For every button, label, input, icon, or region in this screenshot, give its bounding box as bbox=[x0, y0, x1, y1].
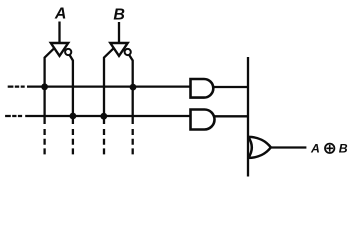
OR input line bbox=[247, 57, 249, 177]
junction dot A on term 1 bbox=[41, 83, 48, 90]
junction dot NOT-A on term 2 bbox=[70, 113, 77, 120]
dashed continuation wire B true bbox=[103, 129, 105, 156]
xor symbol circle bbox=[325, 144, 334, 153]
OR gate U3 bbox=[248, 137, 270, 158]
dashed continuation wire A complement bbox=[72, 129, 74, 155]
bus product term 2 bbox=[25, 115, 190, 117]
svg-text:B: B bbox=[113, 6, 125, 23]
AND gate 1 bbox=[191, 79, 214, 98]
bus product term 1 bbox=[27, 85, 191, 87]
wire output bbox=[271, 146, 307, 148]
dashed continuation wire A true bbox=[43, 129, 45, 156]
wire B complement bbox=[129, 55, 133, 124]
wire B true tap bbox=[104, 44, 119, 124]
bus product term 1 dashed lead bbox=[8, 85, 25, 87]
dashed continuation wire B complement bbox=[132, 129, 134, 155]
wire AND1 output bbox=[213, 86, 248, 88]
wire input A bbox=[58, 22, 60, 44]
xor symbol plus bbox=[326, 145, 333, 152]
wire A true tap bbox=[45, 44, 59, 124]
inverter B bbox=[110, 43, 127, 56]
inverter A bbox=[51, 43, 68, 56]
wire input B bbox=[118, 22, 120, 43]
wire A complement bbox=[70, 55, 73, 124]
AND gate 2 bbox=[191, 110, 215, 130]
svg-text:A: A bbox=[54, 6, 67, 23]
junction dot B on term 2 bbox=[100, 113, 107, 120]
bus product term 2 dashed lead bbox=[5, 115, 22, 117]
svg-text:A: A bbox=[310, 142, 320, 156]
junction dot NOT-B on term 1 bbox=[130, 84, 137, 91]
svg-text:B: B bbox=[339, 142, 348, 156]
inverter A bubble bbox=[65, 49, 71, 55]
inverter B bubble bbox=[125, 49, 131, 55]
wire AND2 output bbox=[214, 115, 248, 117]
